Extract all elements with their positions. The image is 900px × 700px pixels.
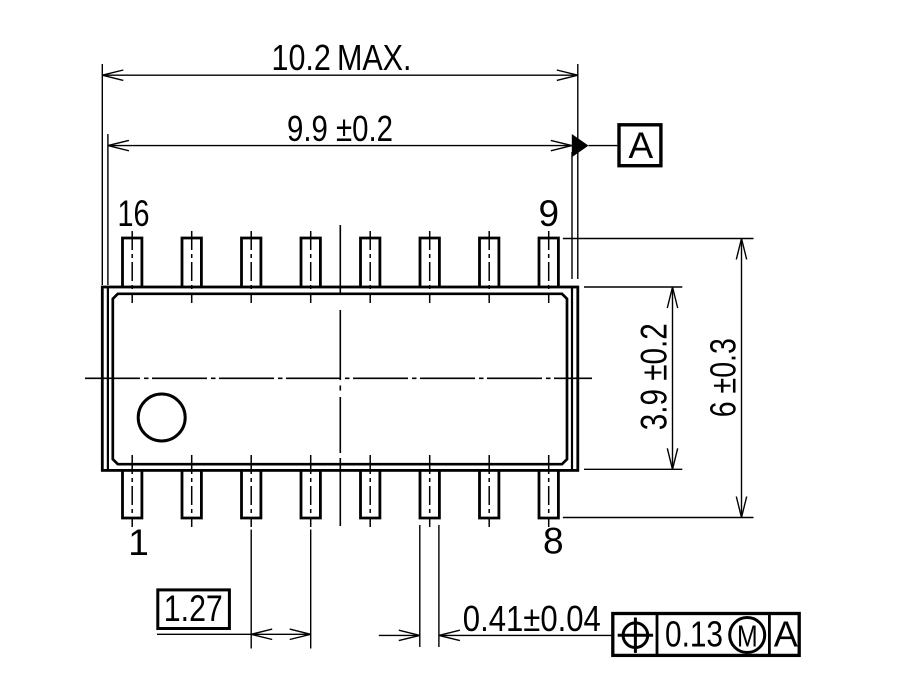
pin 7 [480,469,499,518]
pin 14 centerline [250,231,252,303]
pin 15 centerline [191,231,193,303]
arrowhead 9.9 left [108,140,129,150]
extension line 6 top [563,238,754,240]
dimension line 6 [741,239,743,518]
pin 2 centerline [191,455,193,527]
package body right edge line [571,287,573,470]
pin 6 left edge extension [419,525,421,647]
pin 13 centerline [310,231,312,303]
pin 16 centerline [131,231,133,303]
datum A triangle [572,134,589,157]
pin 3 centerline extension [250,530,252,649]
svg-text:1: 1 [128,522,149,563]
arrowhead 1.27 left [251,629,272,639]
pin 5 [361,469,380,518]
dimension line 0.41 right [439,634,612,636]
arrowhead 6 bottom [736,497,746,518]
pin 4 centerline extension [310,530,312,649]
pin 15 [182,238,201,288]
arrowhead 9.9 right [551,140,572,150]
pin 8 centerline [548,455,550,527]
extension line 10.2 right [577,64,579,279]
material condition M circle [730,618,765,653]
basic dimension box 1.27 [158,590,230,629]
extension line 9.9 left [107,134,109,285]
svg-text:A: A [774,614,798,655]
pin 16 [123,238,142,288]
pin 2 [182,469,201,518]
pin 4 [301,469,320,518]
pin 12 centerline [369,231,371,303]
pin 9 centerline [548,231,550,303]
svg-text:6 ±0.3: 6 ±0.3 [703,338,744,417]
arrowhead 0.41 right [439,630,460,640]
svg-text:M: M [737,619,758,653]
svg-text:10.2 MAX.: 10.2 MAX. [272,37,412,78]
arrowhead 6 top [736,239,746,260]
pin 1 index circle [138,394,185,441]
feature control frame divider 2 [768,614,771,656]
pin 12 [361,238,380,288]
svg-text:A: A [629,125,654,166]
leader dimension line 1.27 [157,633,311,635]
pin 10 [480,238,499,288]
package body left edge line [107,287,109,470]
pin 5 centerline [369,455,371,527]
extension line 6 bottom [563,517,754,519]
horizontal centerline [85,377,592,379]
pin 1 [123,469,142,518]
svg-text:9.9 ±0.2: 9.9 ±0.2 [287,108,393,149]
datum A box [619,125,661,166]
pin 3 [242,469,261,518]
pin 1 centerline [131,455,133,527]
vertical centerline [339,225,341,526]
datum A leader line [589,145,618,147]
package body outer outline [102,287,578,470]
svg-text:16: 16 [118,193,150,234]
pin 7 centerline [488,455,490,527]
pin 14 [242,238,261,288]
svg-text:8: 8 [543,520,564,561]
extension line 9.9 right [571,152,573,279]
package body inner outline chamfered [113,294,567,464]
arrowhead 3.9 bottom [667,448,677,469]
dimension line 3.9 [672,287,674,469]
svg-text:0.13: 0.13 [665,614,723,655]
pin 6 right edge extension [438,525,440,647]
arrowhead 3.9 top [667,287,677,308]
dimension line 9.9 [108,145,572,147]
pin 9 [539,238,558,288]
arrowhead 1.27 right [290,629,311,639]
pin 4 centerline [310,455,312,527]
svg-text:9: 9 [539,193,560,234]
svg-text:1.27: 1.27 [164,588,223,629]
dimension line 10.2 [102,74,578,76]
pin 3 centerline [250,455,252,527]
pin 8 [539,469,558,518]
arrowhead 10.2 right [557,70,578,80]
svg-text:3.9 ±0.2: 3.9 ±0.2 [634,323,675,430]
pin 11 [420,238,439,288]
dimension line 0.41 left [379,634,420,636]
svg-text:0.41±0.04: 0.41±0.04 [463,598,601,639]
extension line 3.9 top [584,286,682,288]
extension line 3.9 bottom [584,468,682,470]
feature control frame [613,614,799,656]
pin 6 [420,469,439,518]
arrowhead 0.41 left [399,630,420,640]
pin 11 centerline [429,231,431,303]
feature control frame divider 1 [656,614,659,656]
pin 13 [301,238,320,288]
true position symbol [618,618,653,653]
extension line 10.2 left [101,64,103,285]
pin 10 centerline [488,231,490,303]
pin 6 centerline [429,455,431,527]
arrowhead 10.2 left [102,70,123,80]
